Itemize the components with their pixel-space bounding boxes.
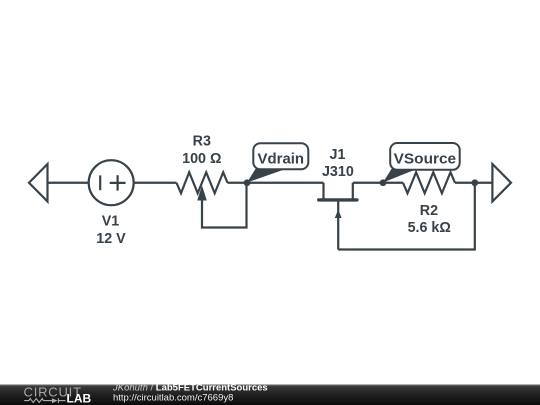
svg-text:100 Ω: 100 Ω	[182, 151, 221, 167]
svg-text:http://circuitlab.com/c7669y8: http://circuitlab.com/c7669y8	[113, 393, 233, 404]
svg-text:5.6 kΩ: 5.6 kΩ	[408, 220, 451, 236]
svg-text:12 V: 12 V	[96, 231, 126, 247]
svg-text:Vdrain: Vdrain	[258, 151, 305, 167]
svg-text:VSource: VSource	[394, 152, 457, 168]
svg-text:R3: R3	[193, 133, 211, 149]
svg-text:LAB: LAB	[67, 392, 92, 405]
svg-text:J1: J1	[330, 147, 346, 163]
svg-text:J310: J310	[322, 164, 354, 180]
svg-text:V1: V1	[102, 214, 120, 230]
svg-text:R2: R2	[420, 203, 438, 219]
